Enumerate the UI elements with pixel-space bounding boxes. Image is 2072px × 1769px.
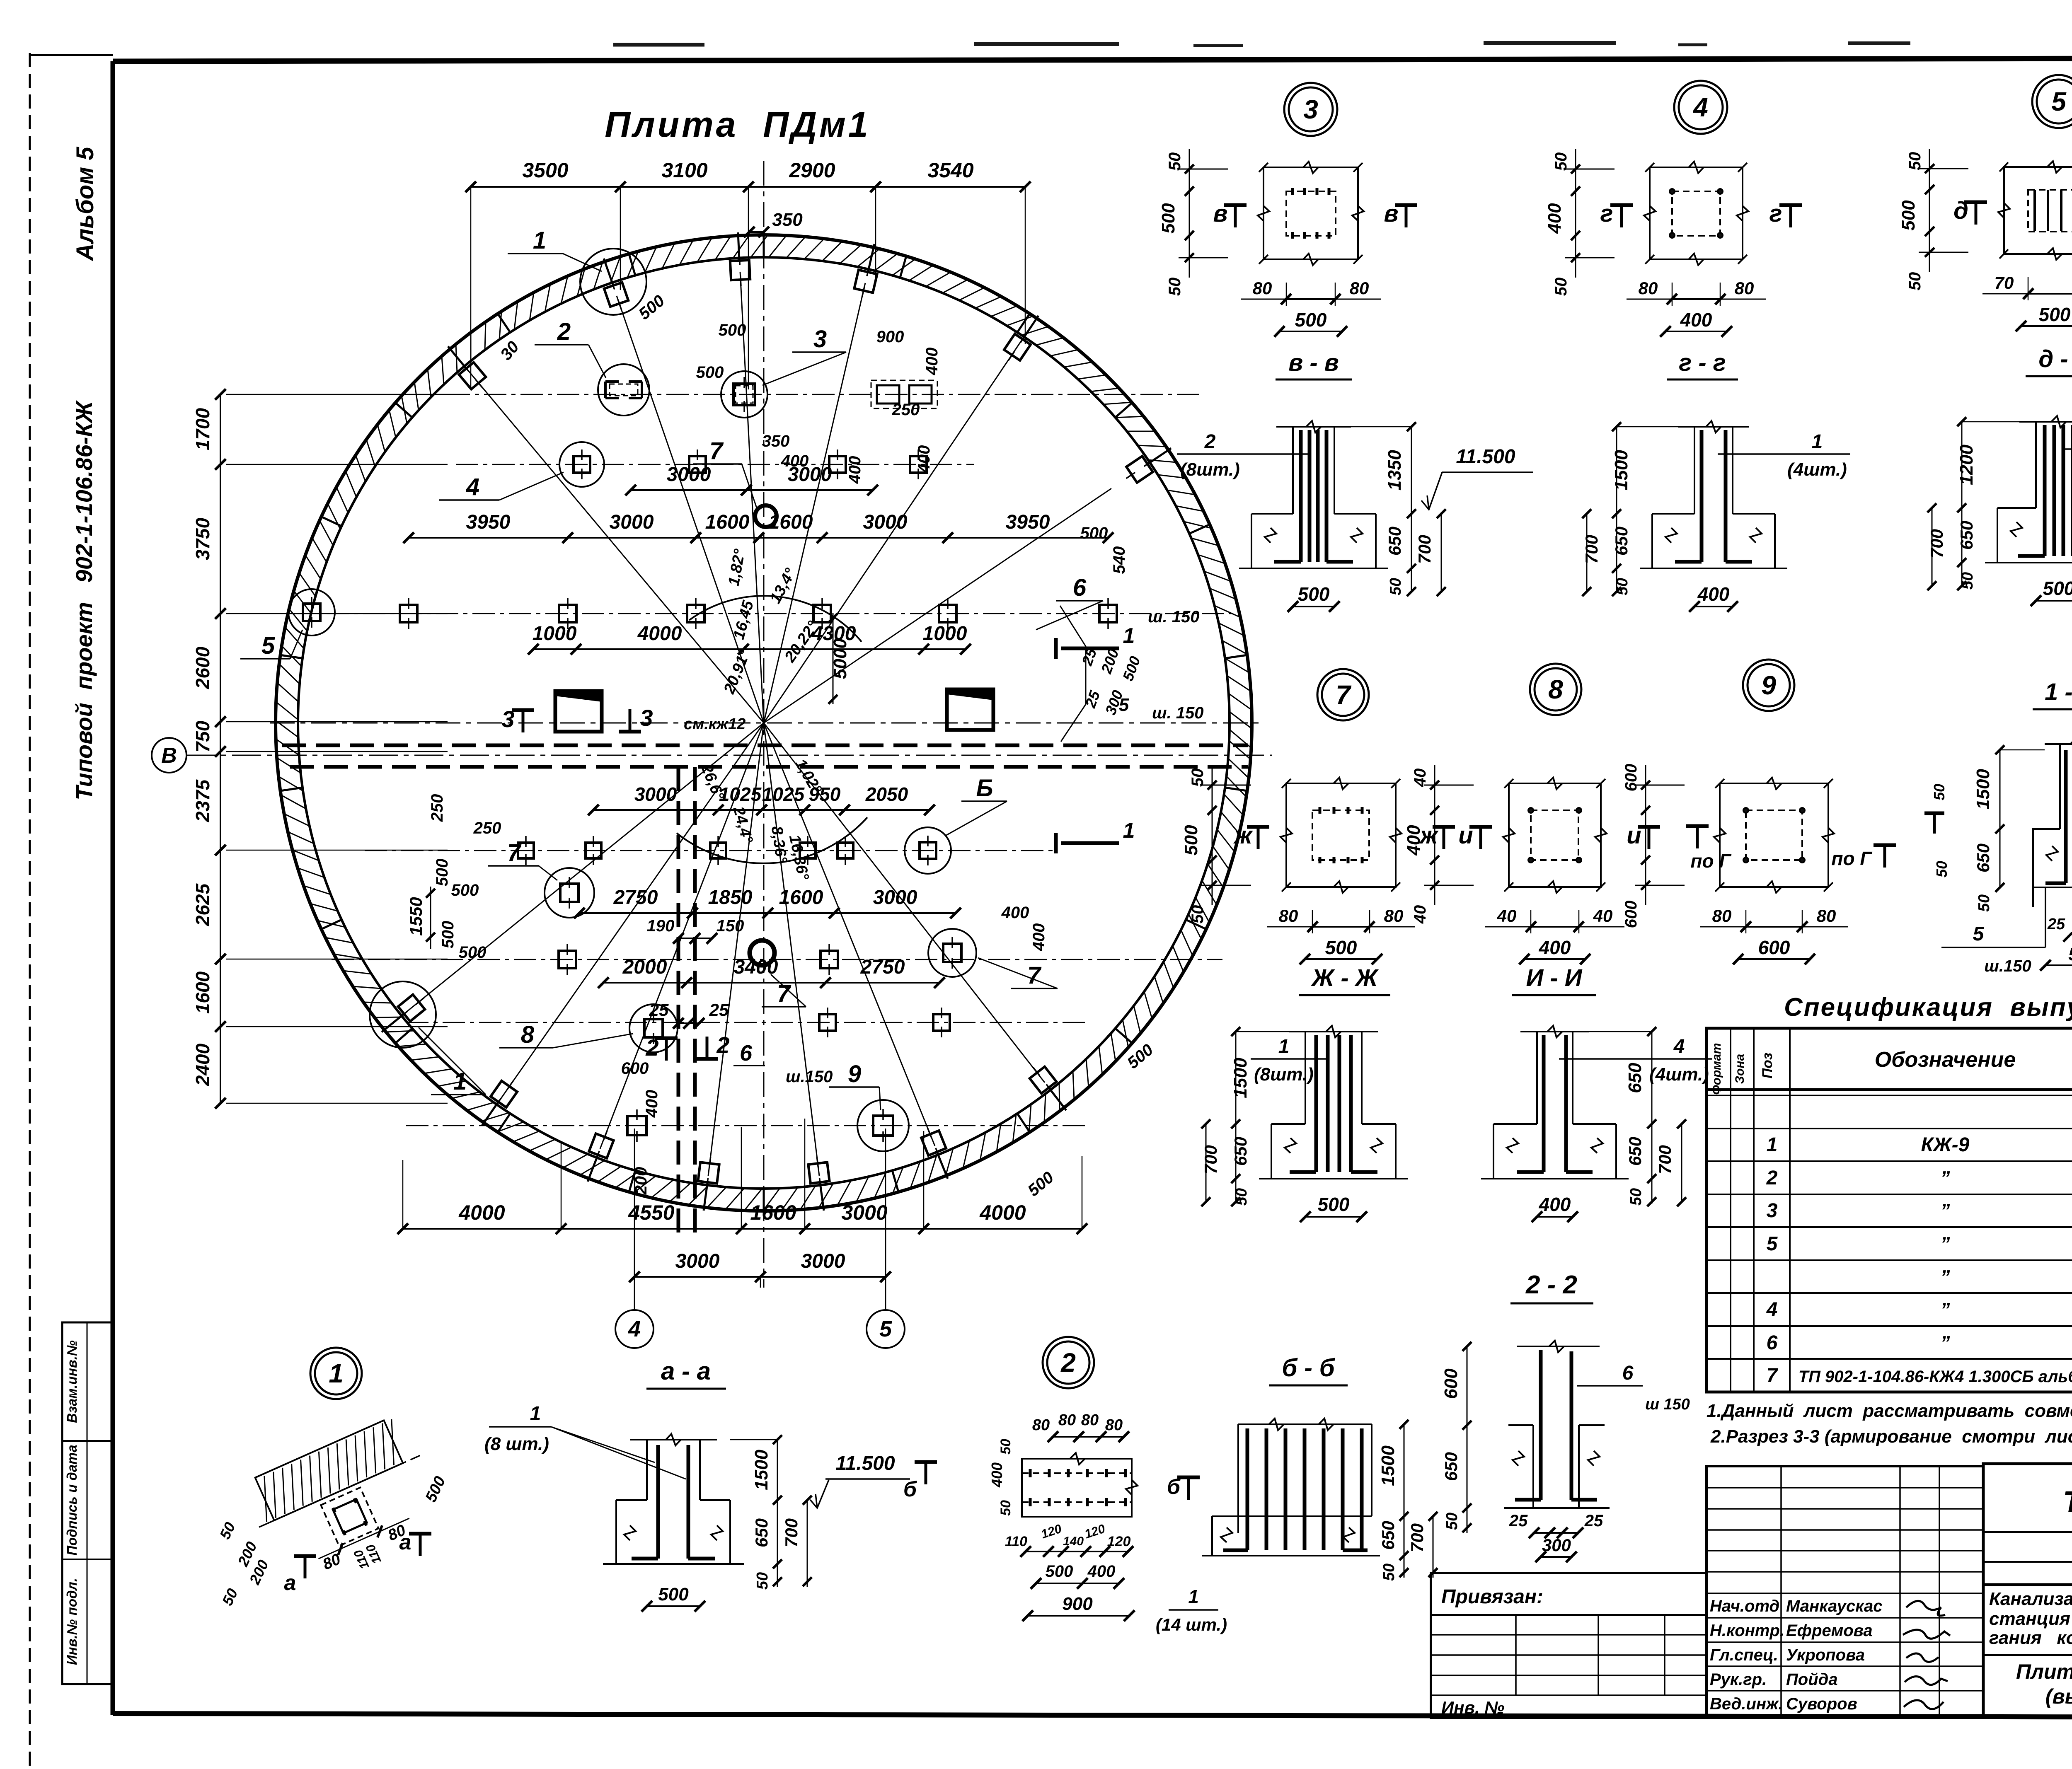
plate rim outer circle [276, 235, 1252, 1211]
svg-text:1600: 1600 [705, 511, 750, 533]
svg-text:700: 700 [1582, 535, 1601, 564]
svg-text:300: 300 [1542, 1535, 1571, 1555]
svg-text:50: 50 [1906, 272, 1924, 291]
svg-text:ТП 902-1-104.86-КЖ4 1.300СБ ал: ТП 902-1-104.86-КЖ4 1.300СБ альб.6 [1798, 1368, 2072, 1386]
scan streaks top [613, 43, 704, 47]
svg-text:650: 650 [1625, 1063, 1645, 1093]
svg-text:1000: 1000 [533, 623, 577, 645]
svg-text:500: 500 [2043, 578, 2072, 599]
column axis lines to balloons [634, 1129, 635, 1310]
svg-text:(выпуски): (выпуски) [2045, 1685, 2072, 1708]
svg-text:Поз: Поз [1760, 1053, 1775, 1079]
svg-text:Рук.гр.: Рук.гр. [1710, 1670, 1767, 1689]
svg-text:1850: 1850 [708, 887, 753, 909]
svg-text:700: 700 [782, 1518, 801, 1547]
svg-text:1700: 1700 [192, 408, 213, 450]
svg-text:Канализационная насосная: Канализационная насосная [1989, 1589, 2072, 1609]
svg-text:1550: 1550 [406, 897, 426, 935]
svg-text:50: 50 [1975, 894, 1993, 912]
central hole upper [755, 505, 777, 527]
svg-text:1: 1 [1123, 624, 1135, 648]
svg-text:3: 3 [1303, 94, 1318, 124]
svg-text:7: 7 [709, 437, 724, 464]
balloon detail 2 symbol [598, 364, 649, 416]
svg-text:1: 1 [533, 227, 546, 254]
svg-text:ш 150: ш 150 [1645, 1396, 1690, 1413]
svg-text:5: 5 [2051, 87, 2067, 116]
balloon 8 anchor [644, 1013, 663, 1044]
dim 25 25 [678, 1022, 699, 1024]
svg-text:25: 25 [1584, 1512, 1603, 1530]
svg-text:500: 500 [439, 921, 457, 949]
dim 2750 1850 1600 3000 [579, 912, 956, 914]
detail 1 rotated plan [240, 1413, 453, 1601]
svg-text:1: 1 [1188, 1586, 1199, 1607]
svg-text:1: 1 [1123, 819, 1135, 843]
svg-text:1: 1 [329, 1358, 344, 1388]
detail 1 balloon [310, 1348, 362, 1399]
svg-text:1500: 1500 [1230, 1058, 1251, 1098]
svg-text:500: 500 [433, 859, 451, 887]
detail 7 plan section [1181, 765, 1455, 964]
svg-text:И - И: И - И [1526, 964, 1583, 991]
dim 190 150 [678, 938, 712, 939]
detail group 3 balloon [1284, 83, 1337, 136]
svg-text:”: ” [1941, 1200, 1950, 1221]
svg-text:1600: 1600 [779, 887, 823, 909]
svg-text:900: 900 [1062, 1594, 1093, 1614]
svg-text:3540: 3540 [927, 159, 973, 182]
svg-text:80: 80 [1384, 906, 1404, 926]
svg-text:50: 50 [1188, 768, 1207, 787]
svg-text:80: 80 [1081, 1411, 1099, 1429]
svg-text:250: 250 [428, 794, 446, 822]
dim 3000 3000 row2 [631, 489, 873, 491]
svg-text:5: 5 [261, 632, 275, 659]
svg-text:1: 1 [530, 1403, 541, 1425]
svg-text:700: 700 [1407, 1523, 1427, 1552]
balloon 5 anchor [303, 597, 320, 628]
svg-text:11.500: 11.500 [1456, 446, 1515, 468]
svg-text:(8шт.): (8шт.) [1180, 459, 1240, 480]
svg-text:80: 80 [1639, 278, 1658, 298]
anchor square row 2717 [627, 1109, 646, 1142]
dim 1000 4000 4300 1000 [533, 648, 966, 650]
anchor squares row 1121 [574, 450, 590, 479]
svg-text:25: 25 [2047, 916, 2065, 933]
svg-text:1350: 1350 [1385, 450, 1405, 491]
svg-text:50: 50 [754, 1572, 771, 1590]
dim 2000 3400 2750 [603, 982, 939, 984]
svg-text:6: 6 [1767, 1332, 1778, 1354]
svg-text:Зона: Зона [1733, 1054, 1747, 1084]
svg-text:400: 400 [643, 1090, 661, 1118]
svg-text:Н.контр.: Н.контр. [1710, 1622, 1784, 1640]
row axes [448, 394, 1202, 395]
svg-text:700: 700 [1415, 535, 1434, 564]
svg-text:6: 6 [1622, 1362, 1634, 1384]
svg-text:”: ” [1941, 1266, 1950, 1288]
balloon 9 anchor [873, 1109, 893, 1142]
anchor squares row 1481 [400, 598, 417, 629]
svg-text:2: 2 [557, 318, 571, 345]
svg-text:в - в: в - в [1288, 349, 1339, 376]
svg-text:1: 1 [1767, 1134, 1778, 1156]
svg-text:2: 2 [1060, 1348, 1076, 1377]
svg-text:3000: 3000 [873, 887, 917, 909]
svg-text:1000: 1000 [923, 623, 967, 645]
svg-text:500: 500 [658, 1584, 689, 1605]
detail 4 plan section [1544, 149, 1802, 337]
heavy dashed wall line lower [290, 765, 1248, 769]
spec table [1706, 1028, 2072, 1392]
svg-text:г - г: г - г [1679, 349, 1726, 376]
svg-text:Ефремова: Ефремова [1786, 1622, 1873, 1640]
detail group 5 balloon [2032, 75, 2072, 128]
svg-text:2 - 2: 2 - 2 [1525, 1271, 1577, 1299]
rim segment joints [1225, 788, 1247, 791]
svg-text:2400: 2400 [192, 1043, 213, 1086]
svg-text:4: 4 [1673, 1036, 1685, 1058]
svg-text:б - б: б - б [1282, 1354, 1335, 1382]
svg-text:ш. 150: ш. 150 [1148, 608, 1200, 626]
detail 5 elevation [1927, 416, 2072, 606]
svg-text:200: 200 [632, 1167, 650, 1195]
svg-text:120: 120 [1107, 1534, 1131, 1549]
svg-text:гания коллектора -7,0.: гания коллектора -7,0. [1989, 1628, 2072, 1648]
svg-text:3000: 3000 [634, 783, 677, 805]
dim 1550 vertical [430, 887, 431, 949]
svg-text:80: 80 [1032, 1416, 1050, 1434]
svg-text:2: 2 [1766, 1167, 1778, 1189]
svg-text:Нач.отд: Нач.отд [1710, 1597, 1779, 1615]
svg-text:2750: 2750 [860, 956, 905, 978]
svg-text:500: 500 [2068, 944, 2072, 964]
svg-text:650: 650 [1625, 1137, 1645, 1166]
svg-text:80: 80 [1058, 1411, 1076, 1429]
svg-text:Альбом 5: Альбом 5 [72, 147, 99, 262]
svg-text:3: 3 [813, 326, 827, 353]
svg-text:400: 400 [988, 1462, 1005, 1488]
dim 3000 3000 bottom [634, 1276, 886, 1278]
svg-text:500: 500 [1898, 200, 1919, 231]
svg-text:4: 4 [1766, 1299, 1778, 1321]
svg-text:400: 400 [1680, 309, 1712, 331]
svg-text:25: 25 [709, 1000, 729, 1020]
detail 4 elevation [1582, 421, 1850, 612]
svg-text:400: 400 [781, 452, 809, 470]
svg-text:650: 650 [1385, 527, 1404, 556]
svg-text:5000: 5000 [830, 638, 850, 679]
svg-text:3500: 3500 [522, 159, 568, 182]
svg-text:(8шт.): (8шт.) [1254, 1064, 1314, 1085]
svg-text:6: 6 [1073, 574, 1087, 601]
balloon around anchor 3 [721, 371, 767, 418]
svg-text:4: 4 [628, 1317, 641, 1341]
svg-text:40: 40 [1593, 906, 1613, 926]
1-1 detail [1941, 738, 2072, 981]
heavy dashed wall line upper [282, 744, 1248, 747]
svg-text:КЖ-9: КЖ-9 [1921, 1134, 1970, 1156]
svg-text:900: 900 [876, 328, 904, 346]
svg-text:2625: 2625 [192, 883, 213, 926]
svg-text:б: б [903, 1477, 917, 1501]
svg-text:3950: 3950 [1006, 511, 1050, 533]
svg-text:4000: 4000 [637, 623, 682, 645]
anchor squares row 952 [733, 377, 755, 412]
svg-text:400: 400 [915, 445, 933, 474]
balloon 7 right anchor [943, 937, 961, 969]
svg-text:д - д: д - д [2038, 346, 2072, 372]
svg-text:50: 50 [1188, 905, 1207, 924]
svg-text:80: 80 [1253, 278, 1272, 298]
detail b-b elevation [1202, 1419, 1438, 1581]
svg-text:500: 500 [2039, 304, 2071, 325]
svg-text:Ж - Ж: Ж - Ж [1310, 964, 1379, 991]
detail group 9 balloon [1743, 660, 1794, 711]
column balloons 4 and 5 [615, 1310, 654, 1348]
detail 8 elevation [1481, 1026, 1712, 1222]
svg-text:4: 4 [466, 474, 479, 500]
svg-text:Привязан:: Привязан: [1441, 1586, 1543, 1608]
svg-text:см.кж12: см.кж12 [684, 715, 746, 733]
svg-text:50: 50 [998, 1439, 1014, 1455]
svg-text:а - а: а - а [661, 1357, 711, 1385]
balloon around anchor 4 [559, 442, 604, 487]
svg-text:по Г: по Г [1690, 850, 1731, 872]
anchor squares row 2053 [518, 836, 534, 865]
svg-text:ш.150: ш.150 [786, 1068, 833, 1086]
svg-text:40: 40 [1411, 768, 1429, 788]
svg-text:500: 500 [1046, 1562, 1073, 1580]
svg-text:7: 7 [1767, 1365, 1779, 1387]
horizontal centre axis [270, 723, 1259, 724]
svg-text:750: 750 [192, 720, 213, 752]
svg-text:700: 700 [1201, 1145, 1220, 1174]
svg-text:1: 1 [1278, 1036, 1290, 1058]
svg-text:80: 80 [1735, 278, 1754, 298]
balloon Б anchor [920, 836, 936, 865]
svg-text:80: 80 [1817, 906, 1836, 926]
detail 5 plan section [1898, 149, 2072, 331]
svg-text:4000: 4000 [458, 1201, 505, 1224]
svg-text:6: 6 [740, 1041, 753, 1066]
svg-text:”: ” [1941, 1233, 1950, 1254]
row extension lines [226, 394, 448, 395]
rim hatching [1229, 741, 1251, 759]
svg-text:650: 650 [1957, 521, 1976, 550]
sidebar stamp boxes [62, 1322, 113, 1684]
svg-text:Б: Б [976, 775, 993, 802]
svg-text:4000: 4000 [979, 1201, 1026, 1224]
svg-text:(4шт.): (4шт.) [1649, 1064, 1709, 1085]
detail a-a elevation [484, 1403, 910, 1612]
svg-text:Обозначение: Обозначение [1875, 1048, 2016, 1072]
detail 2-2 elevation [1441, 1341, 1690, 1562]
svg-text:50: 50 [1552, 278, 1570, 296]
svg-text:Инв.№ подл.: Инв.№ подл. [64, 1578, 80, 1665]
dim 5000 vertical [833, 613, 834, 704]
svg-text:50: 50 [1387, 578, 1404, 595]
svg-text:2.Разрез 3-3 (армирование смо: 2.Разрез 3-3 (армирование смотри лист КЖ… [1710, 1426, 2072, 1447]
anchor squares row 2468 [819, 1008, 836, 1037]
svg-text:400: 400 [1697, 583, 1730, 605]
embedded plate right [947, 689, 993, 730]
svg-text:1500: 1500 [751, 1450, 772, 1490]
svg-text:3000: 3000 [675, 1250, 720, 1272]
svg-text:Вед.инж.: Вед.инж. [1710, 1695, 1783, 1713]
anchor squares row 2316 [559, 944, 576, 975]
svg-text:5: 5 [1119, 695, 1129, 715]
svg-text:1: 1 [1812, 431, 1823, 453]
heavy dashed wall vertical left [677, 767, 680, 1236]
radial layout spokes [465, 366, 764, 723]
svg-text:700: 700 [1655, 1145, 1675, 1174]
svg-text:”: ” [1941, 1167, 1950, 1189]
detail 7 elevation [1201, 1026, 1408, 1222]
paper edge top-left stub [30, 54, 113, 56]
svg-text:3000: 3000 [610, 511, 654, 533]
svg-text:по Г: по Г [1831, 848, 1872, 869]
svg-text:350: 350 [762, 432, 790, 450]
svg-text:500: 500 [1298, 583, 1330, 605]
detail group 8 balloon [1530, 664, 1581, 715]
svg-text:80: 80 [1712, 906, 1732, 926]
detail 3 elevation [1177, 421, 1446, 612]
svg-text:Пойда: Пойда [1786, 1670, 1838, 1689]
balloon 7 left anchor [560, 877, 579, 909]
svg-text:40: 40 [1497, 906, 1517, 926]
svg-text:150: 150 [716, 917, 744, 935]
svg-text:Плита ПДм1: Плита ПДм1 [2016, 1660, 2072, 1683]
dim 3950 3000 1600 1600 3000 3950 [409, 537, 1108, 539]
svg-text:50: 50 [1380, 1564, 1398, 1581]
svg-text:1200: 1200 [1956, 445, 1977, 485]
svg-text:2600: 2600 [192, 646, 213, 689]
svg-text:7: 7 [1027, 962, 1042, 989]
svg-text:2750: 2750 [613, 887, 658, 909]
svg-text:80: 80 [1350, 278, 1369, 298]
axis B line [186, 755, 1272, 756]
axis B balloon [152, 738, 186, 773]
svg-text:а: а [284, 1571, 296, 1595]
svg-text:50: 50 [1552, 152, 1570, 171]
svg-text:9: 9 [848, 1061, 861, 1087]
svg-text:Формат: Формат [1710, 1043, 1723, 1095]
detail 9 plan section [1622, 764, 1848, 964]
svg-text:11.500: 11.500 [835, 1452, 895, 1474]
svg-text:3750: 3750 [192, 517, 213, 560]
svg-text:4: 4 [1692, 92, 1708, 122]
svg-text:700: 700 [1927, 529, 1946, 558]
svg-text:500: 500 [1295, 309, 1327, 331]
svg-text:500: 500 [696, 363, 724, 382]
svg-text:50: 50 [1931, 784, 1948, 800]
svg-text:2050: 2050 [865, 783, 908, 805]
svg-text:1600: 1600 [750, 1201, 796, 1224]
svg-text:400: 400 [1404, 825, 1424, 856]
svg-text:ш. 150: ш. 150 [1152, 704, 1204, 722]
svg-text:1600: 1600 [192, 971, 213, 1014]
svg-text:3950: 3950 [466, 511, 511, 533]
svg-text:250: 250 [892, 401, 920, 419]
svg-text:25: 25 [1509, 1512, 1528, 1530]
circled rim detail 1 top [580, 249, 646, 315]
svg-text:8: 8 [1548, 674, 1563, 704]
svg-text:5: 5 [1767, 1233, 1778, 1255]
paper edge line left [29, 53, 31, 1769]
detail group 7 balloon [1317, 669, 1369, 720]
svg-text:400: 400 [1001, 904, 1029, 922]
circled rim detail 1 bottom [370, 981, 436, 1048]
detail group 4 balloon [1674, 81, 1727, 134]
svg-text:7: 7 [777, 980, 792, 1007]
svg-text:50: 50 [998, 1500, 1014, 1516]
svg-text:110: 110 [1005, 1534, 1027, 1549]
svg-text:3000: 3000 [801, 1250, 845, 1272]
svg-text:Укропова: Укропова [1786, 1646, 1865, 1664]
svg-text:ТП902-1-106.86: ТП902-1-106.86 [2063, 1486, 2072, 1519]
svg-text:2900: 2900 [789, 159, 835, 182]
svg-text:500: 500 [719, 321, 746, 339]
top dimension chain 3500 3100 2900 3540 [471, 186, 1025, 188]
detail 2 plan [903, 1411, 1227, 1634]
svg-text:80: 80 [1279, 906, 1298, 926]
sheet frame [113, 58, 2072, 61]
svg-text:1500: 1500 [1973, 769, 1993, 810]
left dimension chain [220, 394, 221, 1103]
svg-text:Гл.спец.: Гл.спец. [1710, 1646, 1778, 1664]
svg-text:650: 650 [1973, 843, 1993, 872]
svg-text:500: 500 [1318, 1194, 1350, 1215]
svg-text:1500: 1500 [1378, 1445, 1398, 1486]
svg-text:500: 500 [459, 943, 487, 962]
svg-text:1025: 1025 [762, 783, 805, 805]
svg-text:140: 140 [1063, 1535, 1084, 1548]
svg-text:50: 50 [1166, 278, 1184, 296]
svg-text:2: 2 [716, 1032, 729, 1058]
svg-text:70: 70 [1995, 273, 2014, 292]
svg-text:3: 3 [640, 705, 653, 731]
svg-text:50: 50 [1906, 152, 1924, 171]
rim anchors [455, 357, 490, 394]
svg-text:600: 600 [1758, 937, 1790, 958]
svg-text:2375: 2375 [192, 779, 213, 822]
svg-text:станция при глубине зале-: станция при глубине зале- [1989, 1609, 2072, 1629]
svg-text:”: ” [1941, 1332, 1950, 1353]
embedded plate left [555, 691, 602, 732]
svg-text:1500: 1500 [1611, 450, 1631, 491]
svg-text:(14 шт.): (14 шт.) [1156, 1615, 1227, 1634]
svg-text:500: 500 [451, 881, 479, 899]
svg-text:650: 650 [1441, 1452, 1461, 1481]
plate rim inner circle [298, 257, 1230, 1189]
svg-text:(8 шт.): (8 шт.) [484, 1434, 549, 1454]
svg-text:400: 400 [1030, 923, 1048, 952]
svg-text:250: 250 [473, 819, 501, 837]
central hole lower [750, 940, 775, 965]
svg-text:400: 400 [846, 456, 864, 484]
svg-text:600: 600 [1441, 1368, 1461, 1399]
svg-text:9: 9 [1761, 670, 1776, 700]
svg-text:2: 2 [1204, 431, 1216, 453]
vertical centre axis [763, 161, 765, 1288]
svg-text:8: 8 [521, 1021, 535, 1048]
svg-text:Инв. №: Инв. № [1441, 1698, 1504, 1717]
svg-text:2000: 2000 [622, 956, 667, 978]
svg-text:1 - 1: 1 - 1 [2045, 679, 2072, 706]
svg-text:3100: 3100 [661, 159, 707, 182]
